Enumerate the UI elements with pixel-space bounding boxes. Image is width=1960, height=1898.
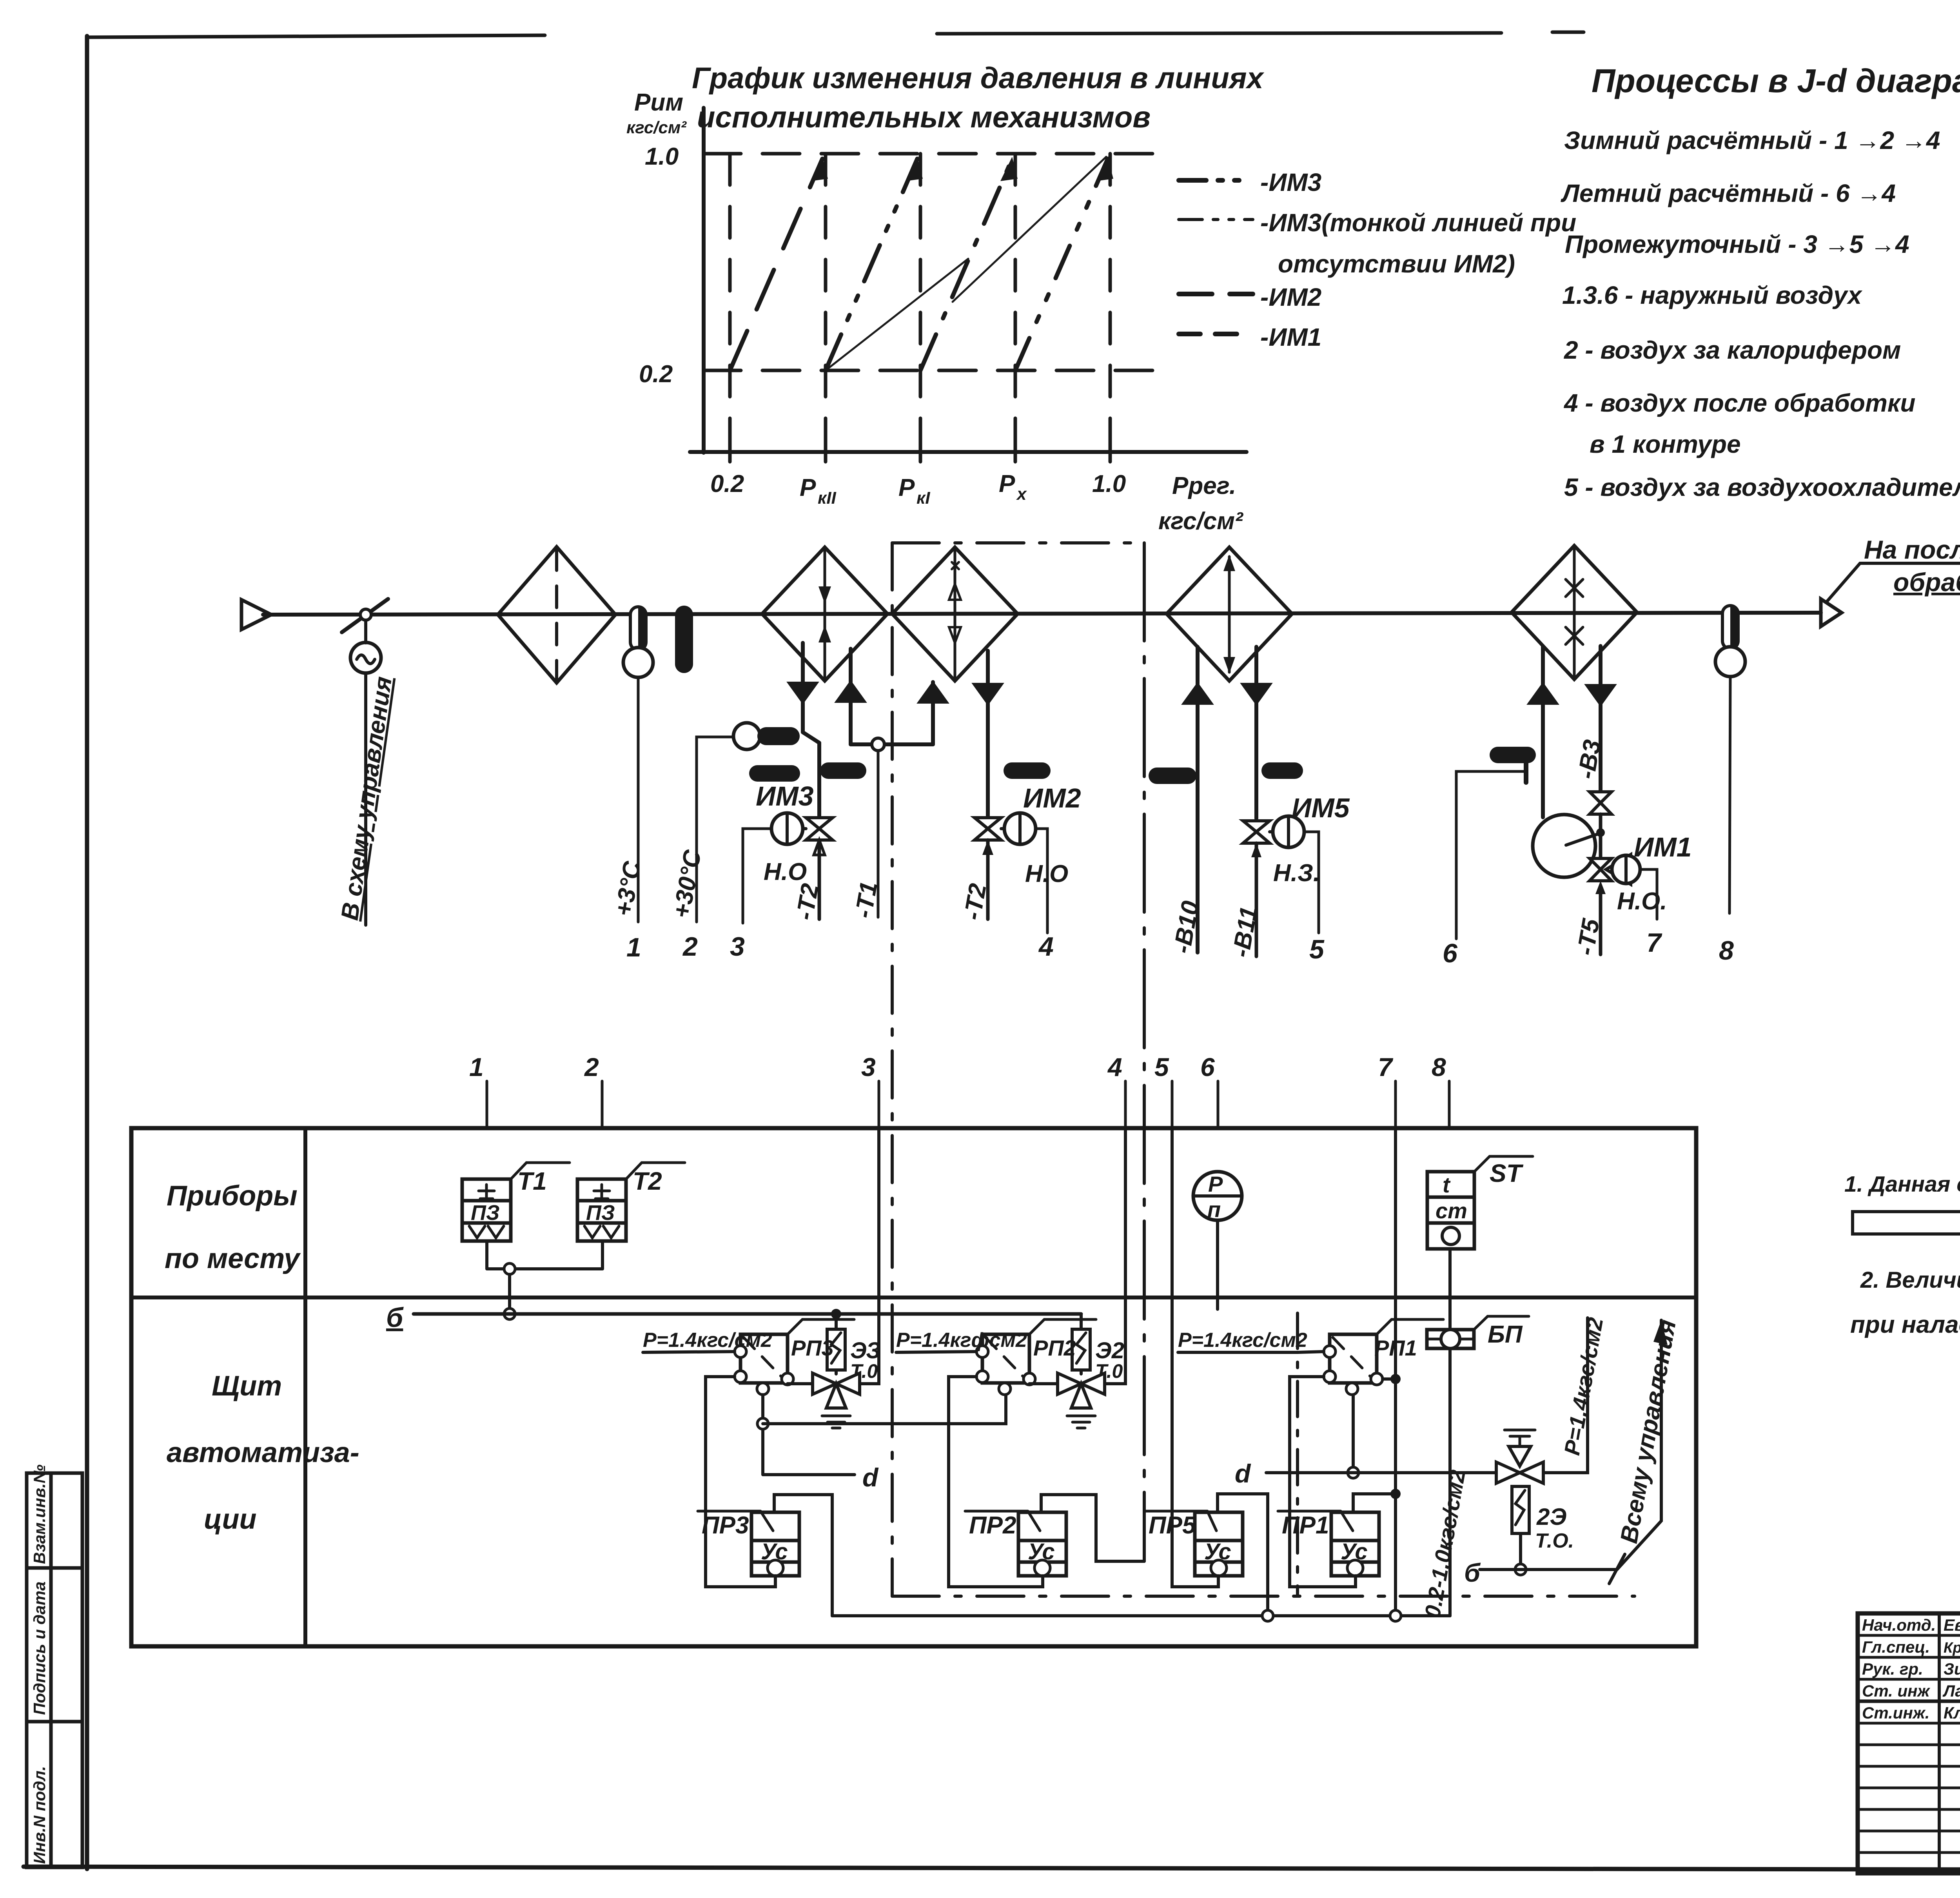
regulator РП3 dashed diagonal [744,1337,784,1380]
svg-text:при наладке: при наладке [1850,1311,1960,1338]
break slash on b2 [1609,1554,1625,1584]
label -T2 below IM2 [959,882,992,922]
valve IM2 body [975,818,1001,840]
graph y=0.2 dashed line [704,369,1166,372]
label -T2 [791,882,824,922]
label -T1 [850,880,883,920]
svg-text:Рук. гр.: Рук. гр. [1862,1660,1923,1678]
valve IM5 body [1243,821,1270,843]
label ИМ2 [1023,783,1081,813]
svg-text:по месту: по месту [165,1243,301,1274]
svg-text:0.2: 0.2 [710,470,744,497]
svg-text:1.0: 1.0 [1092,470,1126,497]
note 2 line 2 [1850,1311,1960,1338]
label +30C [668,847,707,920]
wire T junction to b line [508,1274,511,1314]
processes list [1561,126,1960,501]
valve 2Э ground top [1504,1430,1535,1436]
svg-text:Р: Р [800,474,816,501]
border frame top [87,32,1960,37]
graph diagonal ИМ3 (dash-dot-dot) right [1015,159,1108,370]
node d left [862,1463,879,1492]
svg-text:4: 4 [1038,932,1054,962]
junction bus ПР1 [1390,1610,1401,1621]
svg-text:6: 6 [1200,1052,1215,1081]
amplifier ПР5 box [1195,1512,1243,1576]
wire line 7 down to bus [1394,1128,1397,1616]
node 3 panel [878,1081,880,1128]
label 0.2-1.0кгс/см2 [1420,1468,1470,1620]
label В схему управления [336,675,397,922]
instrument Т1 П3 text [471,1201,500,1225]
valve arrow down KII [789,683,817,702]
node b label [386,1302,404,1333]
label -T5 [1572,916,1605,957]
graph diagonal arrowheads [811,157,1113,181]
instrument Т1 plusminus [479,1185,494,1199]
svg-text:0.2: 0.2 [639,361,673,388]
graph y=1.0 dashed line [704,152,1166,156]
wire b2 line [1480,1568,1617,1571]
svg-text:Гл.спец.: Гл.спец. [1862,1638,1930,1656]
wire 6 [1456,771,1526,939]
svg-text:Ст.инж.: Ст.инж. [1862,1704,1929,1722]
label -B11 [1227,905,1263,960]
sidebar label Инв.N подл. [30,1766,49,1864]
damper motor tilde [357,655,375,664]
svg-text:Промежуточный - 3 →5 →4: Промежуточный - 3 →5 →4 [1565,230,1909,258]
amplifier ПР2 Ус text [1028,1539,1055,1564]
amplifier ПР3 Ус text [761,1539,788,1564]
svg-text:Т.О.: Т.О. [1535,1530,1574,1552]
wire РП3-РП2 crosslink [763,1395,1006,1424]
node 7 [1646,928,1662,958]
node 7 panel [1394,1081,1397,1128]
svg-text:-ИМ1: -ИМ1 [1260,323,1321,351]
pipe B3 to junction [1599,814,1602,858]
label +3C [610,859,646,918]
svg-text:ST: ST [1490,1159,1524,1187]
black capsule left of B10 [1149,768,1196,784]
note 1 [1844,1172,1960,1197]
supply P=1.4 for РП3 [643,1329,772,1352]
duct sensor black capsule [675,606,693,673]
thermometer sensor +3C bulb [623,648,653,677]
junction ПР1 loop on line7 [1390,1489,1401,1499]
label Н.З. [1273,860,1320,887]
damper slash [342,599,388,632]
svg-text:8: 8 [1719,936,1734,965]
title block signature rows [1858,1635,1960,1853]
svg-text:На последующую: На последующую [1864,535,1960,564]
wire РП1 right port to line7 [1383,1377,1396,1381]
filter diamond [498,547,615,683]
svg-text:Т2: Т2 [633,1167,662,1195]
valve IM1 body [1590,858,1612,881]
svg-text:Зимний расчётный - 1 →2 →4: Зимний расчётный - 1 →2 →4 [1564,126,1940,154]
node 5 panel [1171,1081,1174,1128]
panel outer box [131,1128,1696,1646]
element Э2 labels [1095,1338,1124,1382]
amplifier ПР1 tag [1278,1511,1353,1531]
junction d line [1348,1467,1359,1478]
node 8 [1719,936,1734,965]
heater KII inner arrows [824,549,826,679]
wire РП2 port to ПР2 loop [949,1377,1043,1587]
pipe B10 [1196,647,1200,953]
svg-text:1.0: 1.0 [645,143,679,170]
svg-text:5: 5 [1154,1052,1169,1081]
node 1 [626,933,641,962]
graph x tick labels [710,470,1243,535]
cooler diamond [1167,547,1292,681]
filter inner dashed vertical [555,549,558,681]
wire T1 T2 outputs [487,1241,603,1269]
dash-dot mid vertical [1296,1313,1299,1596]
node d right [1235,1459,1251,1488]
graph diagonal ИМ2 (dash-dot) [920,159,1012,370]
wire sensor 1 [637,677,640,922]
wire 2Э down to b2 [1519,1533,1522,1570]
junction РП3 bottom [757,1418,768,1429]
svg-text:в 1 контуре: в 1 контуре [1590,430,1741,458]
label Н.О. [1617,888,1667,915]
svg-text:п: п [1207,1197,1221,1222]
regulator РП3 ports [735,1346,746,1357]
label -B10 [1169,899,1204,955]
border frame bottom [24,1867,1960,1871]
wire ПР2 top loop [1041,1495,1144,1561]
black capsule on suction [1490,747,1536,763]
heater KI inner arrows [954,549,956,679]
pipe B11 lower [1255,843,1258,956]
svg-text:6: 6 [1443,938,1458,968]
svg-text:кгс/см²: кгс/см² [1158,508,1243,535]
svg-text:4: 4 [1107,1052,1122,1081]
title block outer [1858,1613,1960,1873]
svg-text:Взам.инв.№: Взам.инв.№ [30,1464,49,1564]
junction T output [504,1263,515,1274]
leader Всему управления [1617,1320,1661,1570]
pipe T2 below IM3 [818,840,821,919]
svg-text:8: 8 [1432,1052,1446,1081]
regulator РП2 dashed diagonal [985,1337,1026,1380]
label Приборы по месту [165,1180,301,1274]
amplifier ПР3 port circle [768,1560,783,1576]
junction b to Э3 [831,1309,841,1319]
junction line7 port [1390,1374,1401,1384]
sidebar label Взам.инв.№ [30,1464,49,1564]
wire valve Э3 to line 3 [860,1128,879,1384]
regulator РП1 dashed diagonal [1333,1337,1374,1380]
note 1 empty box [1853,1212,1960,1234]
wire РП1 bottom port down [1352,1395,1355,1473]
label Н.О of ИМ3 [764,858,807,885]
pipe B3 [1599,646,1602,791]
amplifier ПР2 tag [965,1511,1040,1531]
instrument Т1 vv marks [469,1226,504,1238]
svg-text:х: х [1016,484,1027,504]
supply P=1.4 for РП2 [896,1329,1027,1352]
node 2 panel [601,1081,604,1128]
title block signature columns [1939,1613,1960,1873]
instrument ST tag [1474,1156,1533,1172]
svg-text:Н.О: Н.О [764,858,807,885]
instrument Т2 vv marks [584,1226,619,1238]
amplifier ПР5 Ус text [1204,1539,1231,1564]
svg-text:Евтушенко: Евтушенко [1944,1616,1960,1634]
wire d line to valve 2Э [1266,1471,1497,1474]
valve arrow down KI [974,684,1002,704]
black capsule right of B11 [1261,762,1303,779]
amplifier ПР1 port circle [1347,1560,1363,1576]
wire РП3 port to ПР3 loop [706,1377,775,1587]
node 5 [1309,934,1325,964]
heater KII diamond [762,547,887,681]
svg-text:2: 2 [584,1052,599,1081]
wire БП down labeled 0.2-1.0 [1448,1348,1452,1616]
output bus bottom [832,1614,1450,1617]
svg-text:обработку: обработку [1893,568,1960,597]
instrument ST box [1427,1172,1474,1249]
panel row divider [131,1296,1696,1299]
graph X axis [690,450,1247,454]
svg-text:автоматиза-: автоматиза- [167,1437,359,1468]
sidebar stamp box [27,1473,82,1867]
graph thin line to Px top [953,157,1106,302]
svg-text:ИМ5: ИМ5 [1292,793,1350,823]
element Э2 stub to valve [1080,1370,1083,1374]
svg-text:7: 7 [1646,928,1662,958]
svg-text:-ИМ2: -ИМ2 [1260,283,1321,311]
svg-text:Рим: Рим [634,89,683,116]
instrument Т2 tag [626,1163,685,1179]
note 2 [1860,1267,1960,1293]
wire ПР3 top loop to bus [774,1495,832,1616]
graph y tick labels [639,143,679,388]
valve 2Э top triangle [1509,1446,1531,1466]
graph diagonal ИМ3 second (dash-dot-dot) [826,159,917,370]
damper motor circle [350,642,381,673]
svg-text:Щит: Щит [212,1370,282,1402]
valve arrow up KII return [837,682,865,702]
svg-text:Р=1.4кгс/см2: Р=1.4кгс/см2 [1178,1329,1307,1352]
node 6 panel [1217,1081,1220,1128]
thermometer sensor end stem [1722,606,1738,649]
reducer БП box [1427,1330,1474,1348]
svg-text:-ИМ3(тонкой линией при: -ИМ3(тонкой линией при [1260,209,1576,237]
svg-text:ст: ст [1436,1198,1467,1223]
svg-text:исполнительных механизмов: исполнительных механизмов [697,101,1151,134]
label -B3 [1573,738,1606,781]
svg-text:Нач.отд.: Нач.отд. [1862,1616,1936,1634]
contour dash-dot top [892,541,1144,544]
node 2 [682,932,698,962]
actuator IM5 [1273,816,1304,847]
label Н.О of ИМ2 [1025,860,1068,887]
svg-text:7: 7 [1378,1052,1394,1081]
wire РП3 bottom port chain [763,1395,855,1475]
svg-text:ИМ3: ИМ3 [756,781,814,811]
valve under ЭЗ [813,1373,860,1394]
ground under ЭЗ valve [822,1416,850,1428]
label обработку [1893,568,1960,597]
svg-text:t: t [1443,1172,1451,1197]
border frame left [85,36,89,1869]
pipe B11 [1254,647,1258,818]
black capsule sensor right of KI supply [1004,762,1051,779]
P/P gauge circle [1193,1172,1242,1220]
regulator РП2 tag [1029,1319,1096,1334]
svg-text:2Э: 2Э [1536,1504,1567,1530]
svg-text:Ст. инж: Ст. инж [1862,1682,1930,1700]
svg-text:Летний расчётный - 6 →4: Летний расчётный - 6 →4 [1561,179,1896,207]
svg-text:График изменения давления в: График изменения давления в линиях [692,62,1265,95]
graph thin line from PкII [826,259,968,370]
header junction node [872,738,884,751]
wire ПР1 top loop [1353,1494,1396,1512]
node 4 panel [1124,1081,1127,1128]
svg-text:ИМ2: ИМ2 [1023,783,1081,813]
amplifier ПР2 port circle [1034,1560,1050,1576]
amplifier ПР1 Ус text [1341,1539,1368,1564]
svg-text:Р: Р [898,474,915,501]
pipe KI return leg [931,682,935,744]
humidifier diamond [1512,546,1637,679]
pipe KII supply [803,643,819,818]
valve IM3 body [806,818,833,840]
svg-text:б: б [1464,1558,1481,1587]
node 8 panel [1448,1081,1451,1128]
node 4 [1038,932,1054,962]
svg-text:б: б [386,1302,404,1333]
actuator IM3 [771,813,803,844]
element ЭЗ box [827,1329,845,1370]
junction bus ПР5 [1262,1610,1273,1621]
label На последующую [1864,535,1960,564]
valve under Э2 [1058,1373,1105,1394]
svg-text:Ррег.: Ррег. [1172,472,1236,499]
svg-text:-ИМ3: -ИМ3 [1260,168,1321,196]
svg-text:ПР3: ПР3 [702,1512,749,1539]
legend line ИМ2 [1179,292,1253,296]
svg-text:Кростошевский: Кростошевский [1944,1640,1960,1656]
regulator РП3 tag [788,1319,854,1334]
wire ПР5 left loop from line 5 [1172,1128,1218,1587]
arrow down B3 [1586,685,1615,705]
legend line ИМ3 thin [1179,218,1253,221]
graph x axis ticks [730,443,1110,462]
thermometer sensor end bulb [1715,647,1745,677]
amplifier ПР3 tag [698,1511,773,1531]
svg-text:1. Данная схема применена д: 1. Данная схема применена для следующих … [1844,1172,1960,1197]
svg-text:d: d [1235,1459,1251,1488]
amplifier ПР5 tag [1145,1511,1216,1531]
air inlet arrow [241,600,271,630]
label ИМ1 [1634,832,1692,862]
svg-text:ЭЗ: ЭЗ [850,1338,881,1363]
svg-text:Клименко: Клименко [1944,1704,1960,1722]
regulator РП2 ports [976,1346,988,1357]
node 3 [730,932,745,962]
wire to control scheme [364,673,367,925]
label ИМ3 [756,781,814,811]
pump radius line [1566,834,1599,845]
svg-text:Р=1.4кгс/см2: Р=1.4кгс/см2 [643,1329,772,1352]
svg-text:БП: БП [1488,1321,1523,1348]
svg-text:Р: Р [999,470,1015,497]
arrow up B10 [1183,684,1212,704]
amplifier ПР1 box [1331,1512,1379,1576]
svg-text:ПЗ: ПЗ [471,1201,500,1225]
label P=1.4 vertical [1559,1316,1608,1457]
legend line ИМ3 [1179,178,1250,183]
graph title [626,62,1265,137]
svg-text:отсутствии ИМ2): отсутствии ИМ2) [1278,250,1515,278]
signature names [1862,1616,1960,1722]
contour dash-dot left vertical [891,543,894,1596]
pump circle [1533,815,1595,877]
svg-text:4 - воздух после обработки: 4 - воздух после обработки [1563,389,1915,417]
wire 4 from IM2 [1036,829,1047,933]
humidifier inner marks [1573,547,1576,677]
element ЭЗ zigzag [831,1333,841,1363]
svg-text:Р=1.4кгфсм2: Р=1.4кгфсм2 [896,1329,1027,1352]
wire РП2 to valve [1029,1382,1058,1385]
svg-text:ции: ции [204,1504,256,1535]
wire ST to BP [1448,1249,1452,1330]
wire b end down to Э2 [1080,1314,1083,1329]
wire 8 [1730,677,1730,913]
amplifier ПР5 port circle [1211,1560,1227,1576]
БП tag [1474,1316,1529,1330]
wire P gauge stub down [1216,1220,1219,1309]
svg-text:d: d [862,1463,879,1492]
junction b2 [1515,1564,1526,1575]
svg-text:Процессы в J-d диаграмме: Процессы в J-d диаграмме [1592,62,1960,99]
graph vertical dashed grid lines [730,154,1110,452]
svg-text:Зингерман: Зингерман [1944,1660,1960,1678]
valve 2Э bowtie [1496,1462,1543,1483]
svg-text:Н.О.: Н.О. [1617,888,1667,915]
element 2Э box [1512,1486,1529,1533]
junction on b line [504,1308,515,1319]
svg-text:Э2: Э2 [1095,1338,1124,1363]
air duct main line [263,613,1821,615]
wire РП3 to valve [788,1382,813,1385]
svg-text:Лазаренко: Лазаренко [1942,1682,1960,1700]
black capsule sensor left of IM3 [749,765,800,782]
svg-text:кII: кII [818,488,837,508]
svg-text:Подпись и дата: Подпись и дата [30,1582,49,1715]
graph Y axis [702,108,706,453]
outlet leader diagonal [1827,563,1960,602]
svg-text:кI: кI [916,488,930,508]
svg-text:1: 1 [469,1052,484,1081]
element ЭЗ labels [850,1338,881,1382]
damper actuator link [364,620,367,643]
regulator РП2 box [982,1334,1029,1383]
svg-text:ПЗ: ПЗ [586,1201,615,1225]
instrument Т1 box [462,1179,511,1241]
label Щит автоматизации [167,1370,359,1535]
wire T1 sensor [877,751,880,917]
panel label column divider [303,1128,307,1646]
arrow up pump suction [1529,684,1557,704]
instrument Т2 plusminus [594,1185,610,1199]
pipe T5 [1599,894,1602,954]
instrument Т1 tag [511,1163,570,1179]
